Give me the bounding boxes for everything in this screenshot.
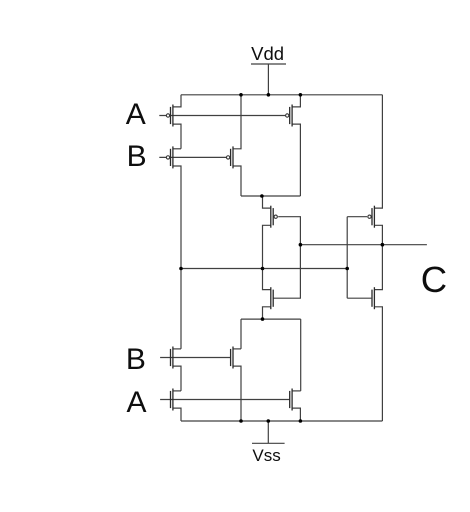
- wire: Vss bottom rail: [181, 420, 382, 422]
- svg-text:A: A: [126, 98, 146, 131]
- wire: input B (bottom row): [160, 357, 231, 359]
- transistor M1 PMOS gate A (top left): [166, 95, 181, 149]
- svg-text:C: C: [421, 259, 447, 300]
- node: X net / inverter gate: [345, 267, 349, 271]
- svg-text:B: B: [126, 343, 146, 376]
- node: X net / left chain: [179, 267, 183, 271]
- node: bottom rail / Vss stem: [267, 419, 271, 423]
- transistor M4 PMOS gate A (top right): [286, 95, 301, 196]
- node: top rail / Vdd stem: [267, 93, 271, 97]
- node: top rail / M3 drain: [239, 93, 243, 97]
- wire: inverter input gate vertical: [346, 217, 348, 299]
- transistor M8 NMOS gate A (bottom left): [171, 389, 182, 422]
- transistor M2 PMOS gate B (left): [166, 146, 181, 349]
- transistor M6 NMOS feedback (middle, mirrored): [263, 269, 274, 320]
- svg-text:B: B: [127, 140, 147, 173]
- svg-text:A: A: [127, 386, 147, 419]
- node: top rail / M4 drain: [299, 93, 303, 97]
- node: output / feedback tap: [299, 243, 303, 247]
- node: bottom rail / M9 source: [239, 419, 243, 423]
- transistor M5 PMOS feedback (middle, mirrored): [263, 196, 301, 269]
- node: pull-down net / M6 source: [261, 317, 265, 321]
- wire: input A (top row): [159, 115, 285, 117]
- node: pull-up net / M5 drain: [260, 194, 264, 198]
- wire: Vdd top rail: [181, 94, 382, 96]
- svg-text:Vss: Vss: [252, 446, 280, 465]
- svg-text:Vdd: Vdd: [251, 43, 284, 64]
- wire: input B (top row): [159, 156, 226, 158]
- transistor M7 NMOS gate B (bottom left): [171, 347, 182, 391]
- wire: pull-up node (y=196): [241, 195, 300, 197]
- Vdd power symbol: [251, 43, 286, 95]
- transistor M3 PMOS gate B (middle): [226, 95, 241, 196]
- wire: input A (bottom row): [160, 399, 290, 401]
- transistor M12 NMOS output inverter (right bottom): [347, 245, 382, 421]
- wire: y319 left drop to M9: [240, 319, 242, 349]
- wire: internal node X horizontal (y=268.5): [181, 268, 347, 270]
- node: X net / M5-M6 junction: [261, 267, 265, 271]
- wire: output C line: [300, 244, 427, 246]
- wire: y319 right drop to M10: [300, 319, 302, 391]
- transistor M9 NMOS gate B (bottom middle): [231, 347, 241, 422]
- wire: pull-down node (y=319): [241, 318, 301, 320]
- transistor M10 NMOS gate A (bottom right): [290, 389, 301, 422]
- Vss power symbol: [252, 421, 285, 465]
- node: output / inverter drain: [381, 243, 385, 247]
- transistor M11 PMOS output inverter (right top): [347, 95, 382, 245]
- node: bottom rail / M10 source: [299, 419, 303, 423]
- wire: feedback gate vertical to M6: [273, 245, 300, 299]
